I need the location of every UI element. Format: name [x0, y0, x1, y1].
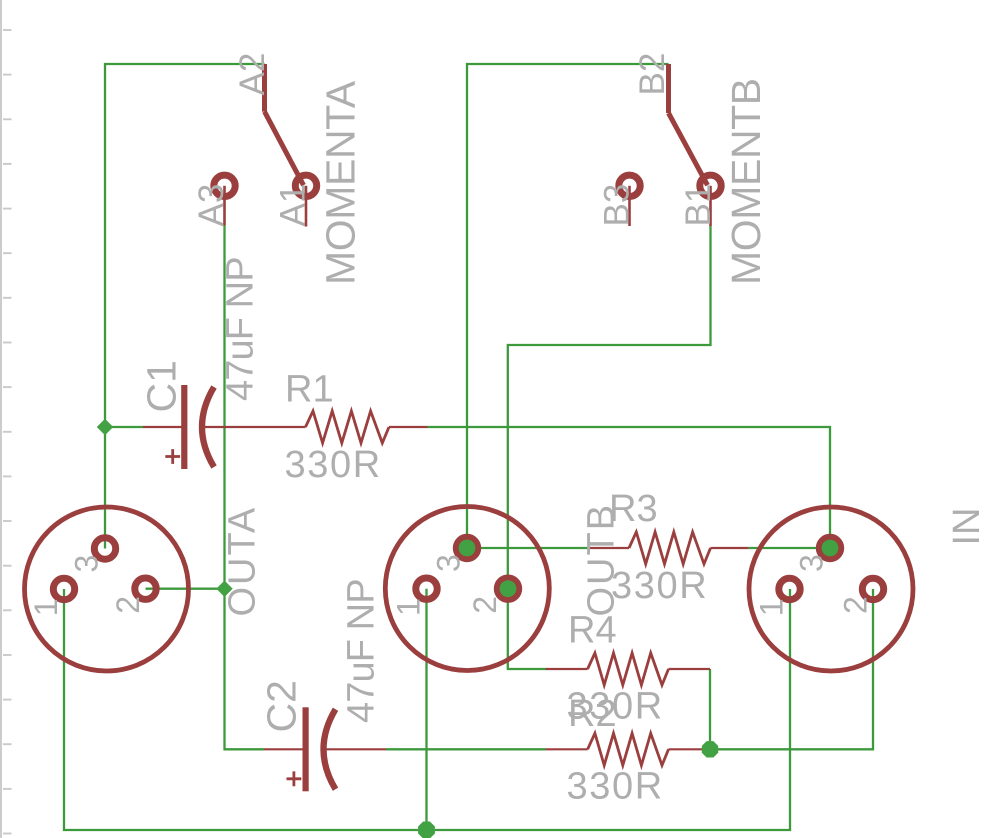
svg-text:MOMENTB: MOMENTB [723, 78, 769, 285]
wire OUTA pin 2 to rail [146, 588, 225, 590]
pad OUTA pin 1 [53, 578, 74, 599]
junction fill OUTB pin 3 [459, 540, 476, 557]
svg-text:OUTA: OUTA [222, 506, 264, 617]
pin A2 stub [262, 64, 267, 112]
wire R1 output to IN pin 3 [428, 427, 831, 549]
svg-text:2: 2 [110, 596, 146, 614]
resistor R3 330R [589, 532, 749, 564]
wire OUTB pin 3 to R3 left [467, 547, 589, 549]
connector X1 OUTA [25, 507, 189, 671]
capacitor C2 47uF NP [264, 707, 386, 791]
pad OUTB pin 1 [416, 578, 437, 599]
svg-text:R2: R2 [568, 693, 617, 735]
wire C2 right to R2 left [386, 748, 546, 750]
svg-text:R4: R4 [568, 610, 617, 652]
junction fill IN pin 3 [822, 540, 839, 557]
junction at bottom rail node [418, 822, 435, 838]
svg-text:IN: IN [946, 508, 988, 546]
pad IN pin 3 [819, 537, 840, 558]
resistor R4 330R [546, 653, 711, 685]
pad OUTA pin 3 [94, 538, 115, 559]
pin B2 stub [666, 64, 671, 113]
pad OUTB pin 2 [497, 578, 518, 599]
svg-text:B2: B2 [633, 53, 672, 96]
junction at C1 left node [97, 419, 113, 435]
capacitor C1 47uF NP [143, 385, 306, 469]
svg-text:MOMENTA: MOMENTA [318, 80, 364, 285]
svg-text:A3: A3 [192, 184, 231, 227]
svg-text:47uF NP: 47uF NP [220, 257, 262, 401]
svg-text:C1: C1 [139, 360, 185, 412]
switch S2 MOMENTB [619, 64, 721, 226]
wire net B1: switch B1 down, left, down through OUTB pin 2 to R4 left [508, 226, 711, 669]
svg-text:B1: B1 [679, 184, 718, 227]
junction fill OUTB pin 2 [500, 580, 517, 597]
svg-text:330R: 330R [567, 766, 664, 808]
svg-text:C2: C2 [259, 680, 305, 732]
wire OUTB pin 1 down to bottom rail [425, 589, 427, 830]
svg-text:3: 3 [794, 554, 830, 572]
resistor R2 330R [546, 733, 711, 765]
wire R3 right to IN pin 3 [749, 547, 830, 549]
svg-text:A1: A1 [274, 184, 313, 227]
svg-text:47uF NP: 47uF NP [341, 579, 383, 723]
svg-text:330R: 330R [285, 444, 382, 486]
svg-text:2: 2 [467, 596, 503, 614]
wire junction to C1 left plate [105, 426, 143, 428]
switch lever B2-B1 [669, 113, 708, 185]
switch S1 MOMENTA [214, 64, 317, 227]
connector X3 IN [749, 507, 913, 671]
svg-text:R1: R1 [285, 369, 334, 411]
pin A3 stub [223, 186, 226, 226]
wire net A3: switch A3 down rail to C2 row [225, 226, 265, 750]
svg-text:3: 3 [69, 555, 105, 573]
pad OUTA pin 2 [135, 578, 156, 599]
switch lever A2-A1 [265, 112, 304, 186]
svg-text:R3: R3 [609, 488, 658, 530]
svg-text:330R: 330R [611, 565, 708, 607]
svg-text:1: 1 [28, 599, 64, 617]
svg-text:3: 3 [431, 554, 467, 572]
svg-text:1: 1 [754, 599, 790, 617]
pad A3 [214, 175, 235, 196]
connector X2 OUTB [385, 507, 549, 671]
wire net A2: switch A2 to left rail down to OUTA pin 3 [105, 64, 265, 549]
pad IN pin 1 [779, 578, 800, 599]
wire junction to IN pin 2 [710, 589, 873, 749]
pad B3 [619, 175, 640, 196]
svg-text:2: 2 [838, 596, 874, 614]
svg-text:1: 1 [391, 598, 427, 616]
pin A1 stub [305, 186, 308, 227]
junction at R2/R4 output node [702, 741, 718, 757]
resistor R1 330R [306, 411, 428, 443]
pad A1 [295, 175, 316, 196]
junction at OUTA pin 2 node [216, 581, 232, 597]
svg-text:A2: A2 [233, 53, 272, 96]
pin B3 stub [628, 186, 631, 226]
pad B1 [700, 175, 721, 196]
pad IN pin 2 [862, 578, 883, 599]
wire net B2: switch B2 to rail down to OUTB pin 3 [467, 64, 669, 548]
wire R4 right down to junction [709, 669, 711, 749]
svg-text:B3: B3 [598, 184, 637, 227]
wire bottom rail OUTA pin 1 to IN pin 1 [64, 589, 790, 830]
pad OUTB pin 3 [456, 537, 477, 558]
pin B1 stub [709, 186, 712, 226]
